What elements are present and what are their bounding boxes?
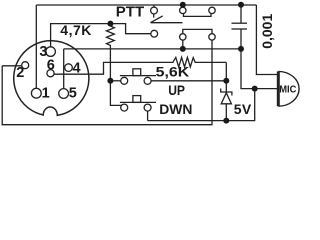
svg-text:MIC: MIC bbox=[279, 84, 297, 95]
svg-text:6: 6 bbox=[47, 58, 55, 74]
svg-text:4: 4 bbox=[73, 60, 81, 76]
svg-text:DWN: DWN bbox=[159, 101, 192, 117]
svg-text:0,001: 0,001 bbox=[259, 14, 275, 49]
svg-text:5V: 5V bbox=[234, 101, 252, 117]
svg-text:2: 2 bbox=[16, 65, 24, 81]
svg-text:1: 1 bbox=[42, 85, 50, 101]
svg-text:4,7K: 4,7K bbox=[60, 22, 92, 38]
svg-text:5: 5 bbox=[69, 85, 77, 101]
svg-text:5,6K: 5,6K bbox=[156, 63, 190, 79]
svg-text:UP: UP bbox=[168, 82, 185, 98]
svg-text:PTT: PTT bbox=[116, 4, 144, 21]
